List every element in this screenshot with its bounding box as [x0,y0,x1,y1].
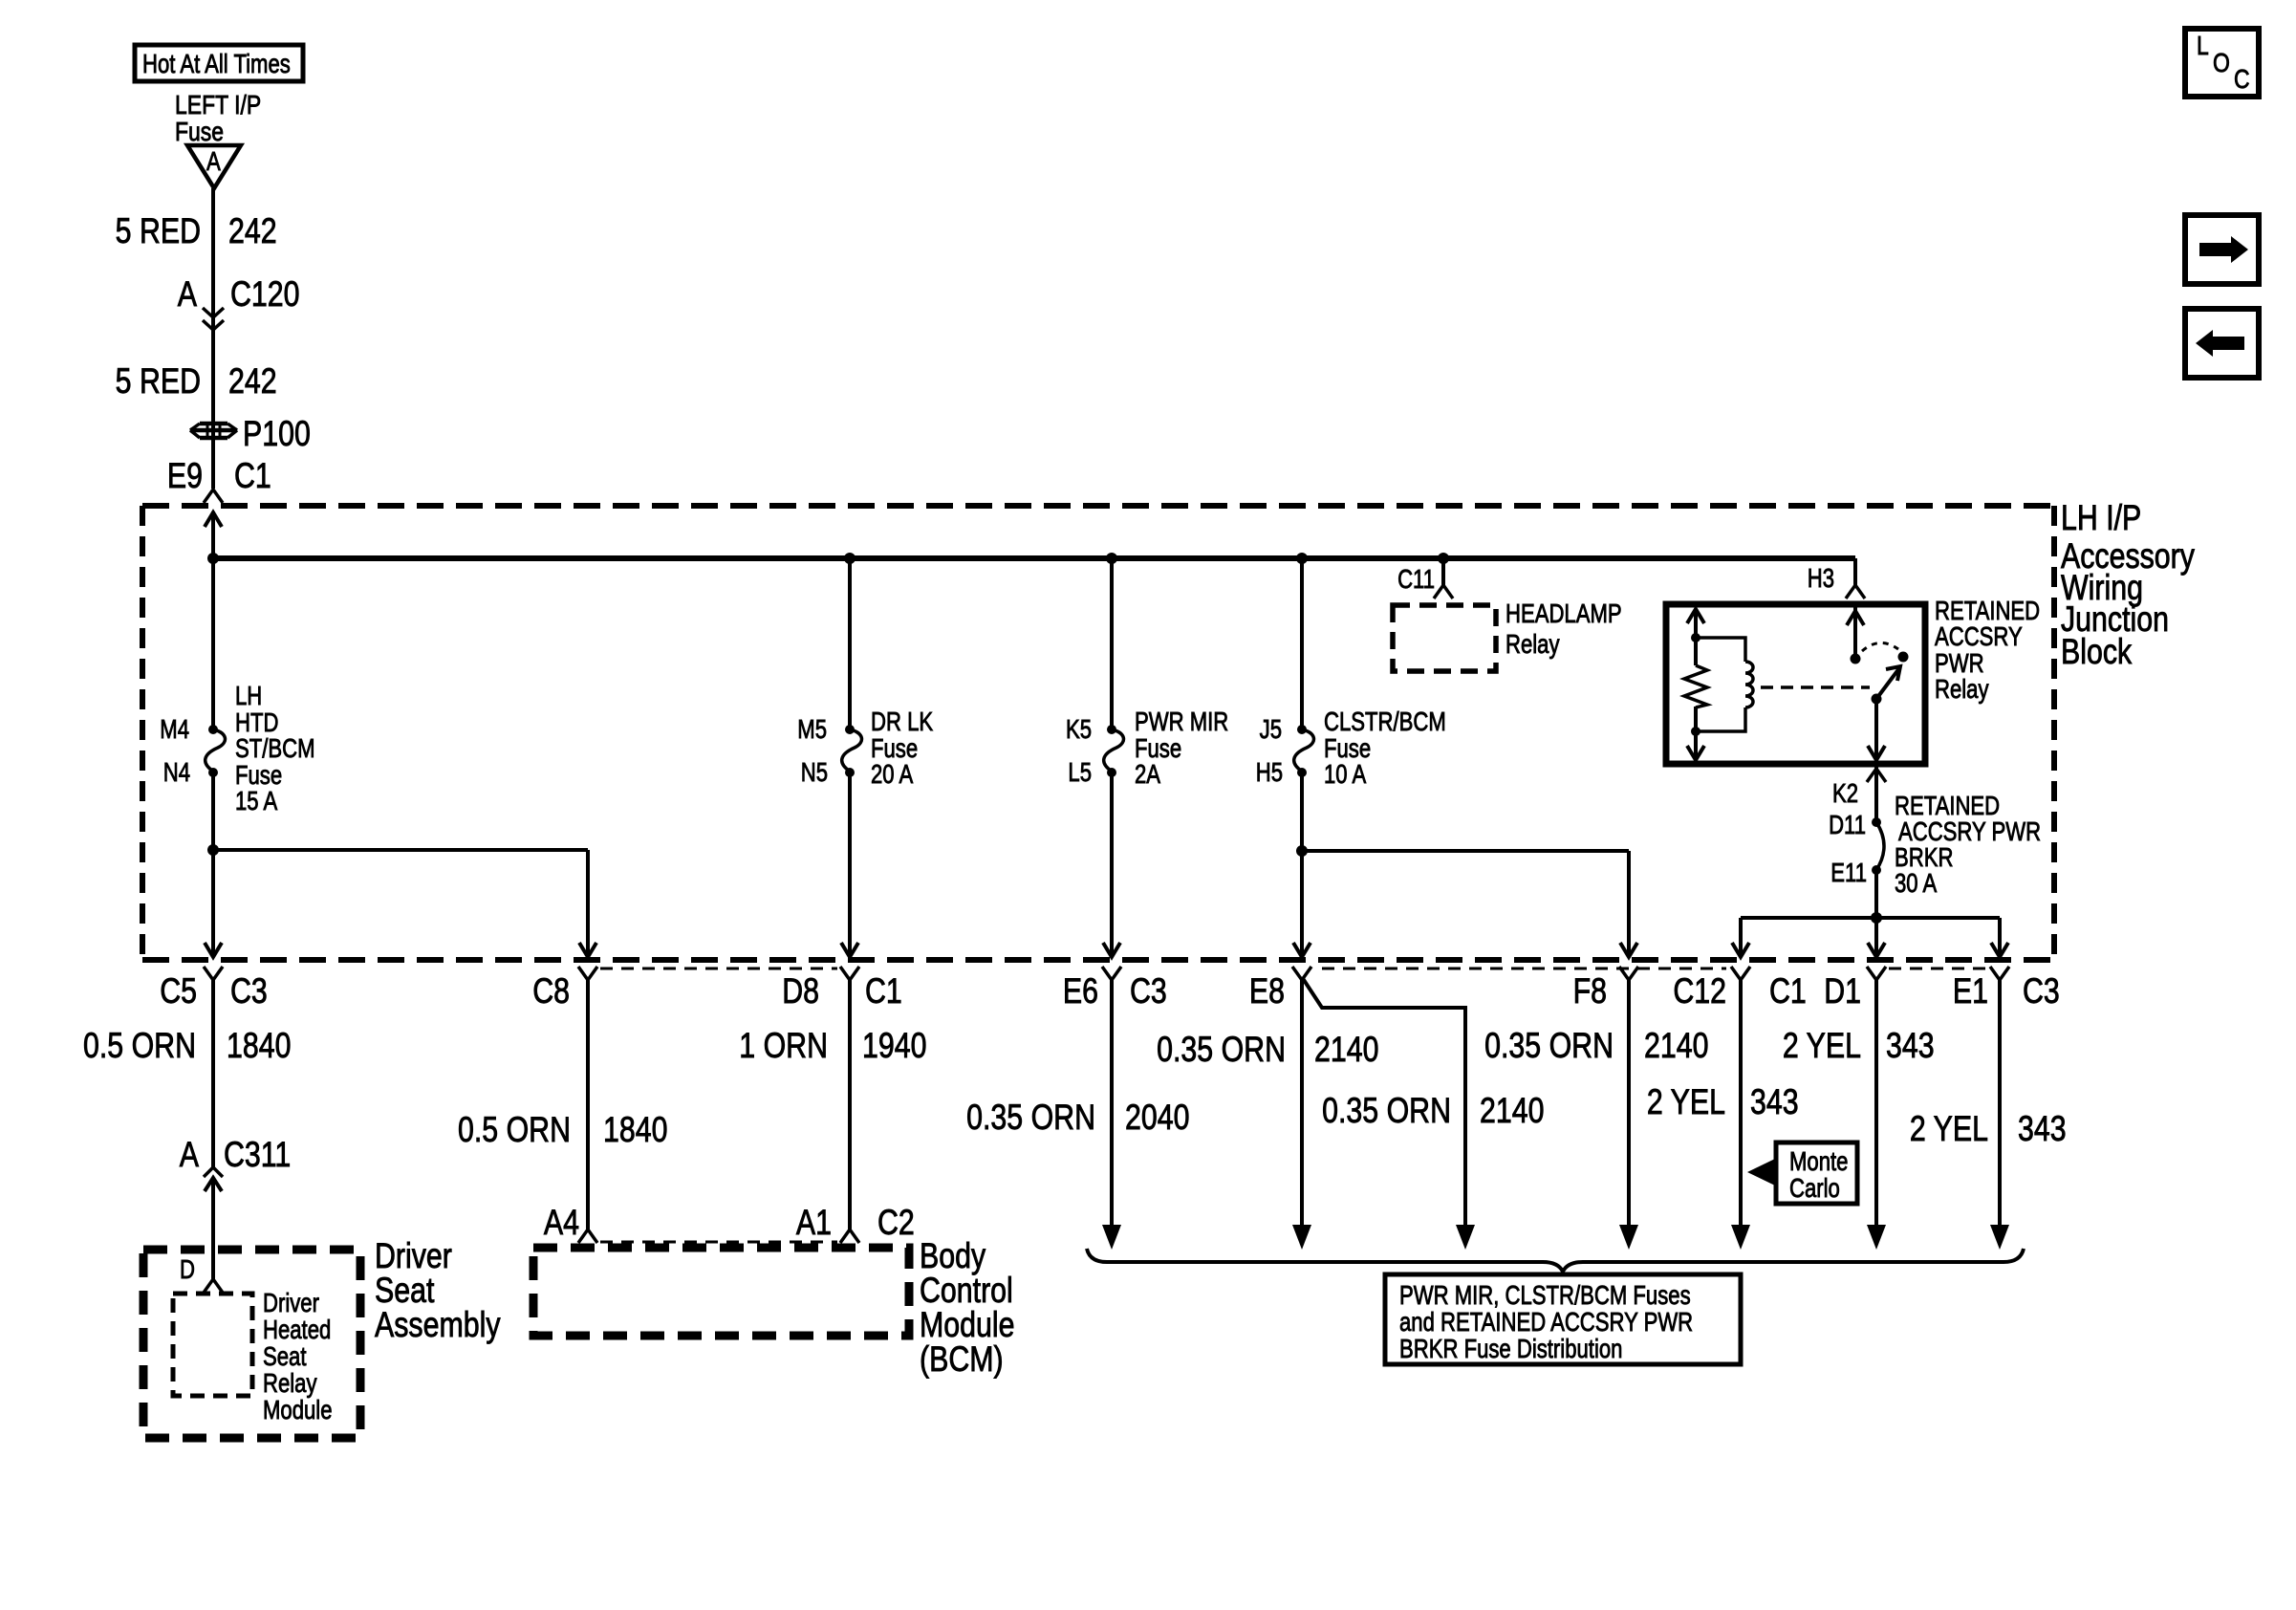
pin E8 fork [1292,967,1311,980]
wire: DR LK branch lower [841,772,858,957]
PWR MIR CLSTR/BCM fuse distribution note box [1385,1274,1741,1364]
svg-text:C8: C8 [532,971,570,1012]
wire: jog from branch1 to C8 [213,850,596,957]
svg-text:C3: C3 [2023,971,2060,1012]
pin A1/C2 fork [840,1229,859,1243]
svg-text:0.5 ORN: 0.5 ORN [83,1026,196,1066]
svg-text:C3: C3 [230,971,268,1012]
relay control dashed line [1761,685,1870,689]
pin A4 fork [578,1229,597,1243]
svg-text:Relay: Relay [1935,675,1989,705]
svg-text:Driver: Driver [263,1289,319,1318]
svg-text:C3: C3 [1130,971,1167,1012]
wire: branch 1 lower with junction [205,772,222,957]
wire: entry arrow up to E9 pin inside block [205,511,222,558]
pin H3 fork [1846,585,1865,598]
svg-text:M4: M4 [160,715,189,745]
resistor inside relay [1684,665,1707,707]
svg-text:0.35 ORN: 0.35 ORN [966,1098,1095,1138]
svg-text:30 A: 30 A [1895,869,1937,899]
wire: PWR MIR branch upper [1110,558,1114,729]
wire: fuse A down to C120 [211,188,215,489]
wire label 0.5 ORN 1840 (C8 lower) [458,1110,668,1150]
pin labels K5 L5 [1066,715,1092,788]
wire label 2 YEL 343 (C12) [1647,1082,1799,1122]
svg-text:C1: C1 [865,971,902,1012]
pin labels M5 N5 [797,715,828,788]
pin labels J5 H5 [1256,715,1283,788]
connector C311 symbol (chevron + up arrow) [204,1167,223,1191]
svg-text:Block: Block [2061,632,2132,672]
svg-text:2A: 2A [1135,760,1160,790]
fuse DR LK 20A (M5/N5) [842,725,862,777]
svg-text:C1: C1 [1769,971,1807,1012]
svg-text:E9: E9 [167,456,203,496]
wire: C12 drop with arrow [1731,980,1750,1250]
svg-text:K2: K2 [1832,779,1858,809]
Monte Carlo callout box with arrow [1747,1142,1857,1204]
svg-text:E6: E6 [1063,971,1098,1012]
svg-text:Carlo: Carlo [1789,1174,1840,1204]
svg-text:DR LK: DR LK [871,707,933,737]
wire: E6 drop with arrow [1102,980,1121,1250]
svg-text:10 A: 10 A [1324,760,1366,790]
LOC locator box [2185,29,2259,97]
svg-text:1940: 1940 [862,1026,926,1066]
svg-text:ACCSRY: ACCSRY [1935,622,2023,652]
svg-text:and RETAINED ACCSRY PWR: and RETAINED ACCSRY PWR [1399,1308,1693,1338]
svg-text:343: 343 [2018,1109,2067,1149]
wire label 0.35 ORN 2140 (E8 jog) [1322,1091,1544,1131]
Driver Seat Assembly dashed box [143,1250,360,1438]
pin E9/C1 fork into junction block [204,490,223,503]
svg-text:C311: C311 [224,1135,291,1175]
pin C12 fork [1731,967,1750,980]
svg-text:Seat: Seat [263,1342,306,1372]
fuse symbol A (LEFT I/P Fuse triangle) [187,145,241,188]
wire: D1 drop with arrow [1867,980,1886,1250]
wire: C3 down to C311 [211,980,215,1168]
svg-text:2140: 2140 [1314,1030,1378,1070]
fuse LH HTD ST/BCM 15A (M4/N4) [206,725,226,777]
grommet P100 [190,424,237,438]
svg-text:A: A [206,147,221,177]
svg-text:ST/BCM: ST/BCM [235,734,315,764]
svg-text:0.35 ORN: 0.35 ORN [1157,1030,1286,1070]
BCM connector thin dashed outline C8-D8-A1-A4 [600,968,837,1242]
svg-text:Hot At All Times: Hot At All Times [142,50,291,79]
wire: E8 straight drop with arrow [1292,977,1311,1250]
LH I/P Accessory Wiring Junction Block dashed box [142,506,2054,960]
wire label 2 YEL 343 (D1) [1783,1026,1935,1066]
svg-text:0.5 ORN: 0.5 ORN [458,1110,571,1150]
wire label 0.35 ORN 2140 (E8) [1157,1030,1378,1070]
svg-text:0.35 ORN: 0.35 ORN [1484,1026,1614,1066]
pin label E9 / C1 [167,456,271,496]
svg-text:1840: 1840 [603,1110,667,1150]
svg-text:Assembly: Assembly [375,1305,501,1345]
node: bus/branch junction dots [207,553,219,564]
svg-text:242: 242 [228,361,277,402]
svg-text:2 YEL: 2 YEL [1647,1082,1725,1122]
svg-text:20 A: 20 A [871,760,913,790]
svg-text:C2: C2 [877,1203,915,1243]
connector label A / C120 [178,274,300,315]
svg-text:D8: D8 [782,971,819,1012]
wire label 0.35 ORN 2140 (F8) [1484,1026,1708,1066]
wire: PWR MIR branch lower [1103,772,1120,957]
svg-text:Fuse: Fuse [175,118,224,147]
pin C1/D1 fork [1867,967,1886,980]
wire label 1 ORN 1940 (C1) [739,1026,926,1066]
svg-text:E8: E8 [1249,971,1285,1012]
wire: H3 drop from bus [1853,558,1857,585]
wire: C8 down to A4 [586,980,590,1229]
svg-text:F8: F8 [1573,971,1607,1012]
wire: DR LK branch upper [848,558,852,729]
pin labels M4 N4 [160,715,190,788]
svg-text:J5: J5 [1260,715,1282,745]
svg-text:Monte: Monte [1789,1147,1848,1177]
wire: CLSTR/BCM branch lower to E8 [1293,772,1310,957]
wire label 5 RED 242 (lower) [116,361,277,402]
svg-text:2 YEL: 2 YEL [1910,1109,1988,1149]
wire label 0.5 ORN 1840 (C3) [83,1026,292,1066]
svg-text:242: 242 [228,211,277,251]
svg-text:P100: P100 [243,414,311,454]
pin labels C5 / C3 [160,971,268,1012]
wire label 0.35 ORN 2040 (E6) [966,1098,1189,1138]
back-arrow nav box [2185,309,2259,378]
wire: CLSTR/BCM branch upper [1300,558,1304,729]
svg-text:5 RED: 5 RED [116,361,201,402]
svg-text:LH I/P: LH I/P [2061,498,2141,538]
svg-text:N4: N4 [163,758,190,788]
pin labels D11 E11 [1829,811,1867,888]
wire: branch 1 upper (bus to LH HTD fuse) [211,558,215,729]
pin labels E1 / C3 [1953,971,2060,1012]
label LEFT I/P Fuse [175,91,261,147]
svg-text:2140: 2140 [1644,1026,1708,1066]
wire: distribution header to C12 and E1 [1732,918,2008,957]
relay RETAINED ACCSRY PWR box [1666,604,1925,764]
wire: D8 down to A1 [848,980,852,1229]
connector C2 thin dashed line E8-F8-C12 [1322,968,1726,970]
label CLSTR/BCM Fuse 10 A [1324,707,1446,790]
wire: jog from CLSTR branch to F8 [1302,851,1637,957]
svg-text:E11: E11 [1830,859,1867,888]
forward-arrow nav box [2185,215,2259,284]
svg-text:A: A [178,274,198,315]
relay switch: H3 contact leg [1847,604,1864,664]
label DR LK Fuse 20 A [871,707,933,790]
svg-text:H5: H5 [1256,758,1283,788]
label Driver Seat Assembly [375,1236,501,1345]
svg-text:PWR MIR: PWR MIR [1135,707,1228,737]
wire label 2 YEL 343 (E1) [1910,1109,2067,1149]
svg-text:L5: L5 [1068,758,1092,788]
svg-text:K5: K5 [1066,715,1092,745]
pin C8 fork [578,967,597,980]
pin E6/C3 fork [1102,967,1121,980]
coil inside relay [1696,638,1753,731]
svg-text:O: O [2213,49,2230,78]
svg-text:CLSTR/BCM: CLSTR/BCM [1324,707,1446,737]
relay coil-side pin arrows [1687,609,1704,760]
svg-text:M5: M5 [797,715,827,745]
wire: E1 drop with arrow [1990,980,2009,1250]
svg-text:Module: Module [263,1396,333,1425]
label RETAINED ACCSRY PWR BRKR 30 A [1895,792,2041,899]
pin labels E6 / C3 [1063,971,1167,1012]
svg-text:1840: 1840 [227,1026,291,1066]
relay switch: NO contact and travel arc [1862,642,1909,662]
svg-text:A4: A4 [544,1203,579,1243]
svg-text:(BCM): (BCM) [920,1339,1004,1380]
svg-text:Heated: Heated [263,1316,331,1345]
svg-text:C12: C12 [1673,971,1726,1012]
wire: E11 down to distribution junction [1868,870,1885,957]
label LH HTD ST/BCM Fuse 15 A [235,682,315,816]
svg-text:15 A: 15 A [235,787,277,816]
label RETAINED ACCSRY PWR Relay [1935,597,2040,705]
svg-text:C11: C11 [1397,565,1435,595]
svg-text:343: 343 [1750,1082,1799,1122]
wire: F8 drop with arrow [1619,980,1638,1250]
svg-text:1 ORN: 1 ORN [739,1026,828,1066]
svg-text:D1: D1 [1824,971,1861,1012]
svg-text:D11: D11 [1829,811,1866,840]
pin E1/C3 fork [1990,967,2009,980]
svg-text:343: 343 [1886,1026,1935,1066]
svg-text:2040: 2040 [1125,1098,1189,1138]
svg-text:5 RED: 5 RED [116,211,201,251]
svg-text:N5: N5 [801,758,828,788]
svg-text:HEADLAMP: HEADLAMP [1505,599,1622,629]
svg-text:C120: C120 [230,274,300,315]
wire: E8 jog drop with arrow [1302,977,1475,1250]
fuse CLSTR/BCM 10A (J5/H5) [1294,725,1314,777]
pin labels D8 / C1 [782,971,902,1012]
svg-text:L: L [2197,32,2209,61]
svg-text:Relay: Relay [1505,630,1560,660]
svg-text:C: C [2234,65,2250,95]
connector C120 symbol (double chevron) [203,308,224,317]
pin labels C1 D1 [1769,971,1861,1012]
pin labels A1 / C2 [796,1203,915,1243]
svg-text:A1: A1 [796,1203,832,1243]
wire: K2 to D11 [1874,764,1878,821]
svg-text:C1: C1 [234,456,271,496]
brace under distribution arrows [1087,1249,2024,1272]
svg-text:LH: LH [235,682,262,711]
label PWR MIR Fuse 2A [1135,707,1228,790]
svg-text:A: A [180,1135,200,1175]
svg-text:Relay: Relay [263,1369,317,1399]
svg-text:PWR MIR, CLSTR/BCM Fuses: PWR MIR, CLSTR/BCM Fuses [1399,1281,1691,1311]
svg-text:LEFT I/P: LEFT I/P [175,91,261,120]
pin D fork in seat assembly [204,1279,223,1293]
svg-text:H3: H3 [1808,564,1834,594]
Hot At All Times box [135,45,303,81]
svg-text:BRKR Fuse Distribution: BRKR Fuse Distribution [1399,1335,1622,1364]
connector label A / C311 [180,1135,292,1175]
pin D8/C1 fork [840,967,859,980]
main bus wire inside junction block [213,555,1855,561]
svg-text:0.35 ORN: 0.35 ORN [1322,1091,1451,1131]
svg-text:C5: C5 [160,971,197,1012]
svg-text:D: D [180,1255,195,1285]
pin C5/C3 fork [204,967,223,980]
wire: switch common down to K2 [1868,699,1885,760]
label HEADLAMP Relay [1505,599,1622,660]
fuse PWR MIR 2A (K5/L5) [1104,725,1124,777]
svg-text:2 YEL: 2 YEL [1783,1026,1861,1066]
label Driver Heated Seat Relay Module [263,1289,333,1425]
svg-text:E1: E1 [1953,971,1988,1012]
svg-text:2140: 2140 [1480,1091,1544,1131]
circuit breaker RETAINED ACCSRY PWR BRKR 30A (D11/E11) [1872,817,1884,875]
wire: C311 into seat assembly [211,1178,215,1279]
pin C11 fork [1434,585,1453,598]
label Body Control Module (BCM) [920,1236,1014,1380]
pin F8 fork [1619,967,1638,980]
pin K2 fork below relay [1867,769,1886,782]
wire: C11 stub from bus [1441,558,1445,585]
Body Control Module dashed box [533,1248,909,1336]
connector thin dashed line D1-E1 [1889,968,1988,970]
Driver Heated Seat Relay Module dashed box [173,1294,252,1396]
label LH I/P Accessory Wiring Junction Block [2061,498,2195,672]
relay switch blade with arrow [1872,666,1901,705]
wire label 5 RED 242 (upper) [116,211,277,251]
HEADLAMP Relay dashed box [1393,605,1496,671]
